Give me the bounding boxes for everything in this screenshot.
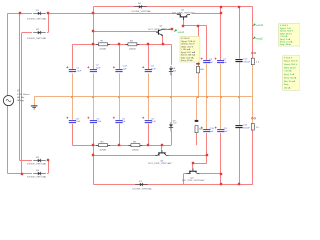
wire -rail y=184.5 bbox=[93, 184, 253, 186]
wire rail B y=13.4 D1 cathode to Q2 base bbox=[47, 13, 181, 15]
resistor R5 load bbox=[251, 52, 260, 65]
svg-text:I(p-p): 1 uA: I(p-p): 1 uA bbox=[284, 73, 295, 76]
wire C3 top orange bbox=[93, 97, 95, 120]
svg-text:21uF: 21uF bbox=[77, 70, 82, 72]
svg-text:4700uF: 4700uF bbox=[243, 127, 251, 129]
wire bottom filter rail y=145.2 bbox=[72, 145, 171, 147]
wire D4 cathode segment bbox=[47, 173, 48, 175]
capacitor C6 bbox=[142, 117, 156, 123]
diode D3 bbox=[27, 157, 48, 166]
svg-text:V(rms): 30.0 V: V(rms): 30.0 V bbox=[284, 63, 298, 66]
wire R5b top orange bbox=[252, 97, 254, 124]
svg-text:I: 160 mA: I: 160 mA bbox=[181, 48, 191, 51]
wire R5 bottom orange bbox=[252, 65, 254, 97]
svg-text:I(dc): 102 mA: I(dc): 102 mA bbox=[181, 56, 194, 59]
capacitor C13 bbox=[235, 124, 250, 129]
wire C15 bottom column bbox=[119, 124, 121, 146]
svg-text:Freq.: 60 Hz: Freq.: 60 Hz bbox=[181, 59, 192, 62]
wire Q1 base line y=31.4 bbox=[93, 31, 157, 33]
capacitor C10 bbox=[201, 127, 215, 134]
transistor Q3 pnp bbox=[149, 150, 173, 165]
capacitor C12 bbox=[235, 58, 251, 63]
wire filter rail y=44.3 bbox=[72, 44, 171, 46]
wire zener D10 bottom column bbox=[171, 131, 173, 145]
wire D4 row y=173.5 bbox=[8, 173, 33, 175]
probe readout box 2 bbox=[279, 24, 300, 47]
transistor Q4 pnp bbox=[182, 168, 205, 182]
resistor R6 bbox=[196, 63, 204, 73]
wire C6 bottom column bbox=[148, 124, 150, 146]
diode D7 bbox=[133, 181, 154, 191]
wire Q4 emitter lead left bbox=[184, 173, 187, 175]
wire C1 bottom orange bbox=[72, 73, 74, 96]
resistor R4 bbox=[128, 141, 142, 151]
capacitor C8 bbox=[215, 127, 228, 134]
wire rail B y=13.4 Q2 to x=220.6 bbox=[192, 13, 220, 15]
wire V1 bottom lead bbox=[7, 106, 9, 174]
svg-text:I(rms): 103 mA: I(rms): 103 mA bbox=[181, 54, 195, 57]
wire Q4 emitter down to -rail bbox=[183, 174, 185, 185]
zener diode D8 bbox=[169, 66, 177, 75]
wire rail B y=13.4 left segment to D1 bbox=[8, 13, 33, 15]
svg-text:21uF: 21uF bbox=[97, 121, 102, 123]
wire C13 top orange bbox=[239, 97, 241, 126]
svg-text:V: 30.0 V: V: 30.0 V bbox=[280, 25, 289, 27]
wire C3 bottom column to -rail bbox=[93, 124, 95, 185]
svg-text:DIODE_VIRTUAL: DIODE_VIRTUAL bbox=[27, 18, 48, 21]
svg-text:+out2: +out2 bbox=[256, 38, 264, 41]
svg-text:4700uF: 4700uF bbox=[243, 61, 251, 63]
wire D3 anode row y=160.5 bbox=[20, 160, 33, 162]
svg-text:21uF: 21uF bbox=[151, 121, 156, 123]
wire C6 top orange bbox=[148, 97, 150, 120]
wire D2 cathode to x=48 riser bbox=[47, 32, 48, 34]
capacitor C14 bbox=[113, 65, 128, 71]
wire zener D5 column bbox=[171, 44, 173, 65]
wire rail A y=6.8 bbox=[93, 6, 253, 8]
wire C7 bottom orange bbox=[220, 64, 222, 97]
svg-text:21uF: 21uF bbox=[76, 121, 81, 123]
svg-text:I(p-p): 18.7 mA: I(p-p): 18.7 mA bbox=[181, 51, 195, 54]
svg-text:+out: +out bbox=[177, 31, 184, 34]
svg-text:I(p-p): 1 uA: I(p-p): 1 uA bbox=[280, 38, 291, 41]
wire C14 bottom orange bbox=[119, 73, 121, 96]
capacitor C2 bbox=[87, 65, 101, 72]
svg-text:60 Hz: 60 Hz bbox=[17, 97, 25, 99]
wire C9 bottom orange bbox=[206, 64, 208, 97]
svg-text:120 Vrms: 120 Vrms bbox=[17, 93, 30, 96]
svg-text:DIODE_VIRTUAL: DIODE_VIRTUAL bbox=[133, 188, 154, 191]
wire zener D10 top orange bbox=[171, 97, 173, 123]
wire C11 bottom column bbox=[72, 124, 74, 146]
ground bbox=[31, 106, 38, 109]
svg-text:+out1: +out1 bbox=[256, 24, 264, 27]
capacitor C9 bbox=[201, 58, 214, 64]
svg-text:I: 30 mA: I: 30 mA bbox=[284, 70, 292, 73]
svg-text:0Deg: 0Deg bbox=[17, 100, 25, 102]
svg-text:V: 30.0 V: V: 30.0 V bbox=[284, 57, 293, 59]
junction dots on common rail bbox=[71, 96, 240, 98]
wire C14 top column x=119 bbox=[119, 44, 121, 69]
svg-text:V(p-p): 70.8 uV: V(p-p): 70.8 uV bbox=[181, 41, 196, 43]
wire C8 top orange bbox=[220, 97, 222, 130]
svg-text:21uF: 21uF bbox=[151, 68, 156, 70]
wire C1 top column x=72.4 bbox=[72, 44, 74, 69]
svg-text:DIODE_VIRTUAL: DIODE_VIRTUAL bbox=[27, 176, 48, 179]
svg-text:BJT_PNP_VIRTUAL*: BJT_PNP_VIRTUAL* bbox=[182, 179, 205, 182]
wire R5b bottom column bbox=[252, 130, 254, 185]
resistor R2 bbox=[125, 41, 139, 51]
wire C8 bottom column bbox=[220, 133, 222, 185]
wire C10 column down x=206.8 bbox=[206, 133, 208, 163]
wire x=19.5 down to D3 row bbox=[19, 13, 21, 160]
capacitor C1 bbox=[66, 66, 82, 72]
wire Q4 collector lead right y=173.7 bbox=[199, 173, 220, 175]
ac source V1 bbox=[3, 90, 29, 105]
svg-text:2200: 2200 bbox=[100, 149, 108, 151]
resistor R1 bbox=[96, 41, 110, 51]
wire C15 top orange bbox=[119, 97, 121, 120]
transistor Q2 npn bbox=[172, 9, 195, 20]
wire C7 column x=220.6 bbox=[220, 7, 222, 61]
probe readout box 3 bbox=[283, 56, 300, 90]
wire C10 top orange bbox=[206, 97, 208, 130]
capacitor C4 bbox=[142, 65, 156, 71]
svg-text:21uF: 21uF bbox=[96, 68, 101, 70]
wire Q2 base down x=183.4 bbox=[183, 20, 185, 26]
svg-text:V(p-p): 70.8 uV: V(p-p): 70.8 uV bbox=[284, 61, 299, 63]
svg-text:DIODE_VIRTUAL: DIODE_VIRTUAL bbox=[27, 37, 48, 40]
svg-text:1kΩ: 1kΩ bbox=[200, 69, 204, 71]
wire C4 bottom orange bbox=[148, 73, 150, 96]
probe +out2 bbox=[252, 36, 263, 40]
wire Q4 base riser bbox=[192, 163, 194, 168]
probe readout box 1 bbox=[180, 37, 200, 63]
probe +out bbox=[174, 29, 185, 34]
wire R6b top orange bbox=[196, 97, 198, 120]
wire zener D5 bottom orange bbox=[171, 74, 173, 97]
wire Q4 base link y=163.2 bbox=[193, 163, 207, 165]
wire C12 bottom orange bbox=[239, 62, 241, 97]
svg-text:V: 24.0 V: V: 24.0 V bbox=[181, 38, 190, 40]
wire Q3 collector line y=155.4 bbox=[168, 155, 207, 157]
wire C2 bottom orange bbox=[93, 73, 95, 96]
wire C13 bottom column bbox=[239, 128, 241, 184]
svg-text:Freq.: 60 Hz: Freq.: 60 Hz bbox=[280, 43, 291, 46]
wire R6 column x=198 behind probe box bbox=[198, 26, 200, 67]
svg-text:100 uA: 100 uA bbox=[284, 86, 291, 89]
wire Q3 emitter line y=155.4 bbox=[93, 155, 155, 157]
svg-text:I: 15.0 A: I: 15.0 A bbox=[280, 35, 288, 38]
svg-text:2200: 2200 bbox=[100, 48, 108, 50]
wire D2 anode segment y=32.6 bbox=[22, 32, 32, 34]
diode D1 bbox=[27, 10, 48, 21]
transistor Q1 npn bbox=[149, 25, 173, 36]
wire R6b bottom column bbox=[196, 133, 198, 145]
svg-text:V(dc): 24.0 V: V(dc): 24.0 V bbox=[181, 46, 194, 48]
wire ground lead bbox=[34, 97, 36, 106]
wire C12 column x=239 bbox=[239, 7, 241, 59]
resistor R6b bbox=[195, 120, 203, 133]
svg-text:DIODE_VIRTUAL: DIODE_VIRTUAL bbox=[132, 10, 153, 13]
svg-text:BJT_NPN_VIRTUAL*: BJT_NPN_VIRTUAL* bbox=[149, 28, 173, 31]
svg-text:I(rms): 15 mA: I(rms): 15 mA bbox=[280, 40, 293, 43]
wire C2 column x=93.4 bbox=[93, 7, 95, 69]
svg-text:I(rms): 30 mA: I(rms): 30 mA bbox=[284, 76, 297, 79]
capacitor C11 bbox=[66, 117, 81, 123]
diode D6 bbox=[132, 3, 153, 13]
wire Q1 collector to +out probe y=29 bbox=[164, 29, 172, 31]
svg-text:1kΩ: 1kΩ bbox=[199, 128, 203, 130]
svg-text:V(dc): 30.0 V: V(dc): 30.0 V bbox=[280, 33, 293, 35]
wire R5 column x=252.8 bbox=[252, 7, 254, 58]
svg-text:BJT_NPN_VIRTUAL*: BJT_NPN_VIRTUAL* bbox=[172, 11, 195, 14]
svg-text:I(dc): 30 mA: I(dc): 30 mA bbox=[284, 80, 296, 83]
capacitor C7 bbox=[215, 58, 228, 64]
svg-text:DIODE_VIRTUAL: DIODE_VIRTUAL bbox=[27, 163, 48, 166]
wire x=48.2 D2 cathode up to rail B bbox=[48, 13, 50, 32]
svg-text:BJT_PNP_VIRTUAL*: BJT_PNP_VIRTUAL* bbox=[149, 162, 173, 165]
capacitor C3 bbox=[87, 117, 102, 123]
svg-text:V(rms): 24.0 V: V(rms): 24.0 V bbox=[181, 43, 195, 46]
svg-text:V(dc): 30.0 V: V(dc): 30.0 V bbox=[284, 67, 297, 69]
wire Q3 base riser x=161.9 bbox=[161, 145, 163, 150]
svg-text:Freq.:: Freq.: bbox=[284, 83, 290, 86]
resistor R7 load bbox=[251, 117, 259, 130]
svg-text:V(rms): 30.0 V: V(rms): 30.0 V bbox=[280, 30, 294, 33]
wire R6 bottom orange bbox=[198, 73, 200, 97]
wire x=21.8 from D2 row down to D4 row bbox=[21, 33, 23, 174]
probe +out1 bbox=[252, 23, 263, 27]
wire V1 top lead bbox=[7, 13, 9, 95]
zener diode D9 bbox=[169, 120, 177, 131]
wire common rail y=96.7 bbox=[34, 96, 253, 98]
wire C11 top orange bbox=[72, 97, 74, 120]
diode D2 bbox=[27, 29, 48, 40]
diode D4 bbox=[27, 170, 48, 179]
svg-text:2200: 2200 bbox=[129, 48, 137, 50]
wire +out node y=25.8 bbox=[183, 25, 206, 27]
wire C9 column x=206.8 bbox=[206, 26, 208, 61]
svg-text:V(p-p): 1 uV: V(p-p): 1 uV bbox=[280, 28, 292, 30]
capacitor C15 bbox=[113, 117, 126, 123]
wire x=48.2 D3 cathode down to D4 row bbox=[48, 161, 50, 174]
wire Q1 emitter down to rail bbox=[162, 36, 164, 44]
svg-text:2200: 2200 bbox=[132, 149, 140, 151]
resistor R3 bbox=[96, 141, 110, 151]
wire C4 top column x=148.3 bbox=[148, 44, 150, 69]
